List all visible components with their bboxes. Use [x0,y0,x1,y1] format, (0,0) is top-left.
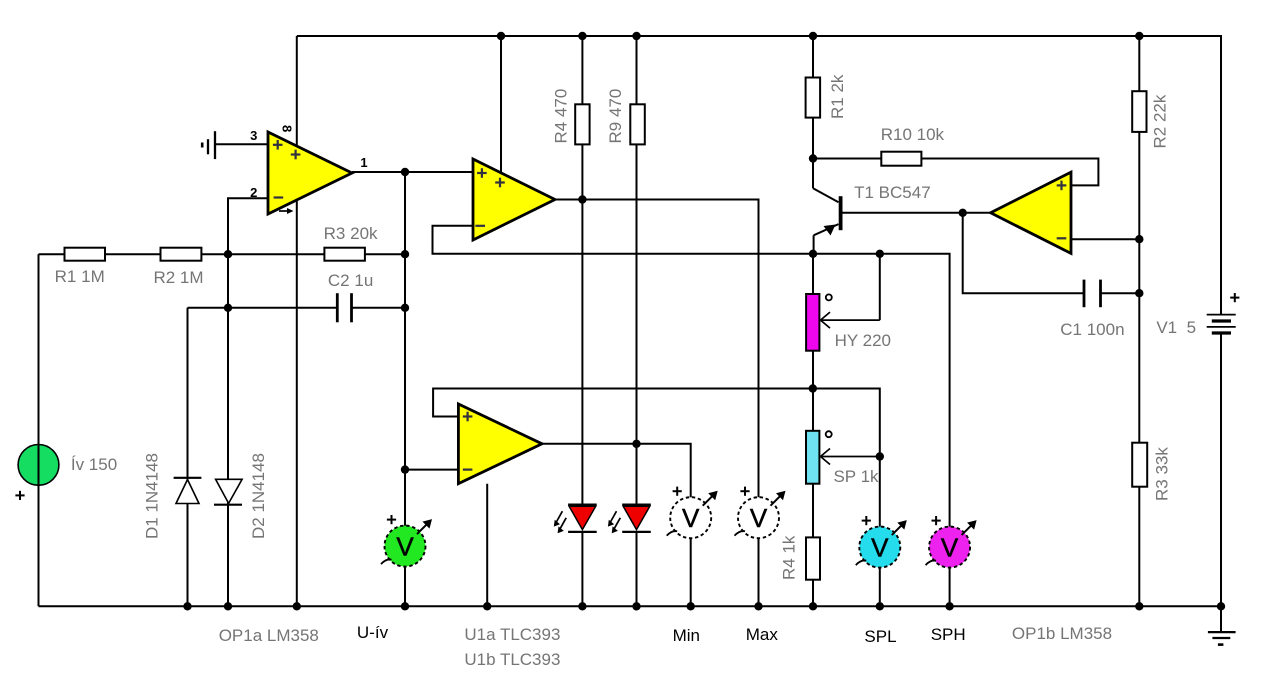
svg-text:R10 10k: R10 10k [881,125,945,144]
svg-text:R2 22k: R2 22k [1151,94,1170,148]
svg-text:2: 2 [250,185,257,200]
svg-text:V: V [750,503,768,533]
svg-text:C1 100n: C1 100n [1060,320,1124,339]
svg-text:OP1a LM358: OP1a LM358 [219,626,319,645]
svg-text:3: 3 [250,128,257,143]
svg-text:U-ív: U-ív [357,623,389,642]
svg-text:R4 1k: R4 1k [780,535,799,580]
svg-text:V: V [871,533,889,563]
svg-text:T1 BC547: T1 BC547 [854,183,931,202]
svg-text:R2 1M: R2 1M [153,268,203,287]
svg-text:V: V [396,532,414,562]
svg-text:1: 1 [360,155,367,170]
svg-text:R3 20k: R3 20k [324,224,378,243]
svg-text:R9 470: R9 470 [606,89,625,144]
svg-text:D1 1N4148: D1 1N4148 [143,453,162,539]
svg-text:V: V [682,503,700,533]
svg-text:R1 2k: R1 2k [828,74,847,119]
svg-text:D2 1N4148: D2 1N4148 [249,453,268,539]
svg-text:R1 1M: R1 1M [55,267,105,286]
svg-text:8: 8 [280,125,295,132]
svg-text:HY 220: HY 220 [835,331,891,350]
svg-text:SPL: SPL [864,627,896,646]
svg-text:V1 5: V1 5 [1156,318,1196,337]
svg-text:Max: Max [746,625,779,644]
svg-text:SPH: SPH [931,625,966,644]
svg-text:Min: Min [673,626,700,645]
svg-text:U1a TLC393: U1a TLC393 [464,625,560,644]
svg-text:SP 1k: SP 1k [833,467,879,486]
svg-text:OP1b LM358: OP1b LM358 [1012,624,1112,643]
svg-text:U1b TLC393: U1b TLC393 [464,650,560,669]
svg-text:R3 33k: R3 33k [1153,447,1172,501]
svg-text:Ív 150: Ív 150 [71,455,117,474]
svg-text:C2 1u: C2 1u [328,271,373,290]
svg-text:V: V [941,533,959,563]
svg-text:R4 470: R4 470 [552,89,571,144]
